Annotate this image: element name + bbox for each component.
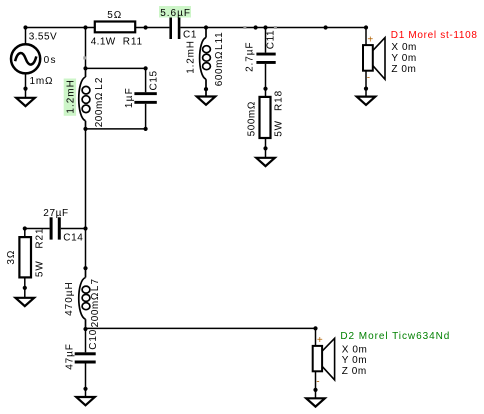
ground below D2: [306, 398, 325, 406]
node C11-R18: [263, 87, 267, 91]
svg-text:Y 0m: Y 0m: [342, 355, 367, 366]
svg-text:1.2mH: 1.2mH: [186, 40, 197, 73]
wire C14 row left: [25, 228, 50, 230]
svg-text:5W: 5W: [35, 260, 46, 277]
ground below R21: [16, 298, 35, 306]
wire C15 bottom: [145, 104, 147, 129]
svg-text:1.2mH: 1.2mH: [66, 79, 77, 113]
svg-text:+: +: [367, 35, 373, 46]
svg-text:200mΩ: 200mΩ: [90, 292, 101, 327]
node C15 bottom: [144, 127, 148, 131]
wire L2-C15 top: [86, 67, 146, 69]
svg-text:C11: C11: [266, 30, 277, 49]
svg-text:2.7µF: 2.7µF: [245, 42, 256, 72]
node C14 right: [83, 226, 87, 230]
voltage source V1: [11, 44, 40, 73]
junction dot R11 left: [83, 25, 87, 29]
svg-text:D2 Morel Ticw634Nd: D2 Morel Ticw634Nd: [340, 331, 450, 342]
green highlight 5.6uF: [159, 6, 191, 18]
junction dot rail b (C11): [263, 25, 267, 29]
svg-text:5Ω: 5Ω: [107, 10, 122, 21]
resistor R11: [95, 22, 135, 33]
svg-text:Z 0m: Z 0m: [342, 366, 367, 377]
grey endpoint marker rail 2: [274, 26, 277, 29]
capacitor C10: [75, 352, 96, 363]
speaker D1: [363, 38, 385, 97]
wire C11 top: [265, 28, 267, 53]
inductor L11: [200, 28, 211, 97]
wire L2 branch top: [85, 28, 87, 69]
inductor L2: [79, 68, 90, 128]
svg-text:-: -: [316, 376, 319, 387]
junction dot R11 right: [144, 25, 148, 29]
wire R21 bottom: [24, 277, 26, 297]
svg-text:600mΩ: 600mΩ: [214, 51, 225, 86]
resistor R21: [19, 237, 31, 277]
node D2 top corner: [313, 326, 317, 330]
svg-text:C14: C14: [63, 232, 83, 243]
svg-text:1µF: 1µF: [124, 87, 135, 108]
wire top rail seg1: [26, 27, 95, 29]
svg-text:C1: C1: [183, 30, 197, 41]
node L7 bottom: [83, 327, 87, 331]
wire L2-C15 bottom: [86, 128, 146, 130]
wire top rail seg3: [180, 27, 366, 29]
wire R21 top: [24, 229, 26, 238]
svg-text:X 0m: X 0m: [342, 344, 368, 355]
node R21 bottom: [23, 286, 27, 290]
junction dot D1 top: [364, 25, 368, 29]
svg-text:X 0m: X 0m: [391, 42, 417, 53]
speaker D1 wire: [365, 28, 367, 46]
svg-text:5.6µF: 5.6µF: [160, 8, 191, 19]
ground below R18: [256, 158, 275, 166]
node L7 top: [83, 266, 87, 270]
junction dot rail a: [254, 25, 258, 29]
node L11 bottom: [204, 87, 208, 91]
svg-text:5W: 5W: [273, 120, 284, 137]
ground below L11: [197, 97, 216, 105]
svg-text:3.55V: 3.55V: [29, 31, 57, 42]
wire C14 row right: [61, 228, 86, 230]
node L2 top: [83, 66, 87, 70]
svg-text:4.1W: 4.1W: [91, 36, 116, 47]
svg-text:Y 0m: Y 0m: [391, 53, 416, 64]
wire C11 bottom: [265, 64, 267, 97]
node C15 top: [144, 66, 148, 70]
junction dot source-gnd: [23, 87, 27, 91]
speaker D2 wire: [315, 328, 317, 346]
svg-text:C15: C15: [149, 70, 160, 90]
ground below C10: [76, 397, 95, 405]
wire bottom rail: [86, 327, 316, 329]
svg-text:1mΩ: 1mΩ: [30, 76, 54, 87]
svg-text:R18: R18: [273, 90, 284, 111]
svg-text:R21: R21: [35, 228, 46, 249]
svg-text:L7: L7: [90, 278, 101, 292]
svg-text:470µH: 470µH: [64, 281, 75, 316]
svg-text:-: -: [367, 72, 370, 83]
grey endpoint marker: [83, 56, 86, 59]
capacitor C1: [169, 18, 180, 40]
svg-text:500mΩ: 500mΩ: [247, 101, 258, 136]
wire top rail seg2: [135, 27, 169, 29]
speaker D2: [313, 338, 335, 398]
node C14 left: [23, 226, 27, 230]
node R18 bottom: [263, 146, 267, 150]
grey endpoint marker rail 1: [243, 26, 246, 29]
capacitor C15: [134, 92, 156, 104]
svg-text:27µF: 27µF: [43, 208, 68, 219]
wire C10 top: [85, 329, 87, 352]
wire C15 top: [145, 68, 147, 92]
node D1 bottom: [364, 87, 368, 91]
node L11 top: [204, 25, 208, 29]
wire mid vertical: [85, 129, 87, 268]
svg-text:Z 0m: Z 0m: [391, 64, 416, 75]
resistor R18: [260, 97, 271, 138]
capacitor C14: [50, 217, 61, 239]
wire R18 bottom: [265, 138, 267, 158]
svg-text:47µF: 47µF: [64, 343, 75, 370]
node C10 bottom: [83, 387, 87, 391]
svg-text:L2: L2: [94, 76, 105, 90]
junction dot source top: [23, 25, 27, 29]
svg-text:C10: C10: [88, 329, 99, 350]
wire source leads: [25, 28, 27, 98]
svg-text:3Ω: 3Ω: [6, 250, 17, 265]
svg-text:200mΩ: 200mΩ: [94, 92, 105, 127]
junction dot rail c: [324, 25, 328, 29]
svg-text:0s: 0s: [44, 55, 57, 66]
svg-text:+: +: [317, 335, 323, 346]
inductor L7: [79, 268, 90, 329]
svg-text:R11: R11: [123, 36, 143, 47]
ground below source: [16, 98, 35, 106]
green highlight 1.2mH: [64, 79, 76, 116]
capacitor C11: [256, 53, 275, 64]
wire C10 bottom: [85, 364, 87, 398]
svg-text:D1 Morel st-1108: D1 Morel st-1108: [391, 30, 478, 41]
ground below D1: [357, 97, 376, 105]
node L2 bottom: [83, 127, 87, 131]
svg-text:L11: L11: [214, 31, 225, 50]
node D2 bottom: [313, 388, 317, 392]
